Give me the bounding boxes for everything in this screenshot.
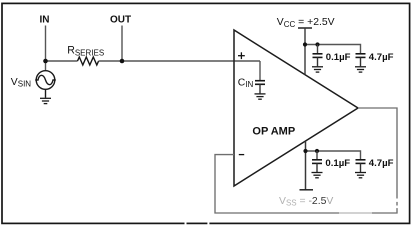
svg-text:IN: IN bbox=[40, 15, 50, 26]
ground for VCC 0.1uF bbox=[312, 67, 323, 72]
junction dot VSS rail bbox=[303, 149, 307, 153]
voltage source VSIN bbox=[35, 71, 56, 98]
VCC terminal bar bbox=[298, 27, 312, 29]
resistor RSERIES bbox=[78, 57, 99, 65]
junction dot at OUT node bbox=[120, 59, 125, 64]
wire: IN stub bbox=[45, 26, 47, 71]
op-amp U1 bbox=[234, 30, 358, 186]
capacitor CIN bbox=[255, 61, 265, 93]
wire: VCC rail vertical bbox=[304, 28, 306, 75]
junction dot at VSIN/IN node bbox=[43, 59, 48, 64]
op-amp - input marker bbox=[239, 154, 244, 156]
svg-text:OUT: OUT bbox=[110, 15, 131, 26]
junction dot VCC 0.1uF branch bbox=[315, 42, 319, 46]
ground for VSIN bbox=[40, 98, 51, 103]
wire: VSS branch to bypass caps bbox=[306, 151, 361, 160]
wire: OUT stub bbox=[121, 26, 123, 62]
svg-text:OP AMP: OP AMP bbox=[252, 125, 295, 137]
ground for CIN bbox=[255, 94, 266, 99]
wire: VSS rail vertical bbox=[305, 141, 307, 189]
VSS terminal bar bbox=[300, 189, 314, 191]
ground for VSS 0.1uF bbox=[312, 173, 323, 178]
svg-text:0.1µF: 0.1µF bbox=[326, 52, 351, 63]
ground for VCC 4.7uF bbox=[355, 67, 366, 72]
op-amp + input marker bbox=[238, 52, 245, 59]
feedback wire from output to inverting input bbox=[215, 108, 397, 213]
watermark white gaps bbox=[185, 199, 399, 226]
svg-text:4.7µF: 4.7µF bbox=[369, 52, 394, 63]
wire: VSIN node to resistor bbox=[46, 60, 78, 62]
capacitor 4.7uF (VSS bypass) bbox=[356, 160, 366, 172]
junction dot VCC rail bbox=[303, 42, 307, 46]
ground for VSS 4.7uF bbox=[355, 173, 366, 178]
capacitor 4.7uF (VCC bypass) bbox=[356, 54, 366, 67]
svg-text:0.1µF: 0.1µF bbox=[325, 158, 350, 169]
svg-text:4.7µF: 4.7µF bbox=[369, 158, 394, 169]
capacitor 0.1uF (VSS bypass) bbox=[312, 151, 322, 172]
wire: VCC branch to bypass caps bbox=[305, 45, 361, 54]
capacitor 0.1uF (VCC bypass) bbox=[313, 45, 323, 67]
junction dot VSS 0.1uF branch bbox=[315, 149, 319, 153]
wire: resistor to op-amp + input bbox=[99, 60, 260, 62]
